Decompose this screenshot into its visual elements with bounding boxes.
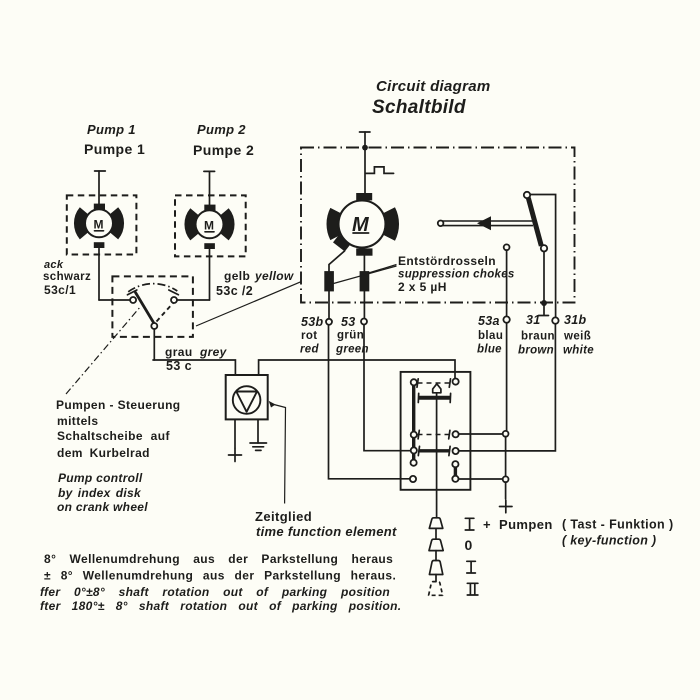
svg-text:schwarz: schwarz xyxy=(43,271,91,283)
wire pump1 top lead xyxy=(98,171,100,205)
wire 53 green down xyxy=(364,325,411,451)
junction dot on housing bottom xyxy=(541,300,547,306)
svg-text:red: red xyxy=(300,344,319,356)
pump motor M1 body circle xyxy=(85,209,113,237)
index disk switch S1 dashed housing xyxy=(112,276,192,337)
svg-text:Pumpe 1: Pumpe 1 xyxy=(84,141,145,157)
pump motor M2 right pole shoe xyxy=(224,212,228,236)
wire pump1 to disk contact xyxy=(99,299,130,301)
pushbutton direction symbol (pentagon) xyxy=(433,384,441,393)
terminal 53 circle xyxy=(361,319,367,325)
svg-text:Pump controll: Pump controll xyxy=(58,471,143,485)
wire pump2 bottom lead xyxy=(209,250,211,301)
switch left contact bar (thick) xyxy=(412,386,415,460)
contact mid-right row2 xyxy=(453,431,459,437)
wire timer plus leg xyxy=(234,419,236,448)
svg-text:fter 180°± 8° shaft rotation: fter 180°± 8° shaft rotation out of park… xyxy=(40,599,401,613)
wire grey 53c to timer xyxy=(153,360,235,375)
contact bottom-left (53b red) xyxy=(410,476,416,482)
svg-text:on crank wheel: on crank wheel xyxy=(57,500,148,514)
label position I xyxy=(467,561,476,573)
svg-text:8° Wellenumdrehung aus der: 8° Wellenumdrehung aus der Parkstellung … xyxy=(44,552,393,566)
index disk contact right (to pump2) xyxy=(171,297,177,303)
wire park switch top to 31b xyxy=(530,195,555,318)
svg-text:+: + xyxy=(483,517,491,532)
wire choke L2 to terminal 53 xyxy=(363,291,365,318)
svg-text:ffer 0°±8° shaft rotation out: ffer 0°±8° shaft rotation out of parking… xyxy=(40,585,390,599)
park switch bottom contact xyxy=(541,245,547,251)
pump motor M2 top brush xyxy=(204,205,215,211)
terminal 31b circle xyxy=(552,317,558,323)
svg-text:Schaltscheibe auf: Schaltscheibe auf xyxy=(57,429,170,443)
wire stem between bells 3-4 xyxy=(435,575,437,582)
timer triangle xyxy=(236,392,257,412)
svg-text:M: M xyxy=(204,219,214,233)
contact mid-left row2 xyxy=(411,432,417,438)
dashed row 1 with end ticks xyxy=(418,382,452,384)
index disk wiper dashed lever xyxy=(157,303,174,322)
wire disk common down xyxy=(153,329,155,360)
svg-text:weiß: weiß xyxy=(563,331,591,343)
detent position bell II (dashed) xyxy=(429,582,443,596)
wire 53a blue down xyxy=(506,323,508,431)
wire blue to plus xyxy=(505,482,507,499)
wire motor to left choke xyxy=(329,251,345,271)
leader line to choke L1 xyxy=(334,266,397,284)
wire 31b white down xyxy=(458,324,555,451)
contact mid-right row3 xyxy=(453,448,459,454)
svg-text:grün: grün xyxy=(337,330,364,342)
svg-text:53b: 53b xyxy=(301,315,324,329)
pump motor M1 right pole shoe xyxy=(113,211,117,235)
pump motor M1 top brush xyxy=(94,204,105,210)
plus symbol battery (blue line) xyxy=(500,500,513,513)
svg-text:Schaltbild: Schaltbild xyxy=(372,97,466,118)
terminal T-bar motor supply xyxy=(360,131,371,133)
wiper arm rod xyxy=(441,221,533,226)
contact circle 53a inside housing xyxy=(504,244,510,250)
wire 53a contact down xyxy=(506,250,508,316)
svg-text:braun: braun xyxy=(521,331,555,343)
wiper motor top brush xyxy=(356,193,372,200)
leader arrow to timer xyxy=(269,401,276,408)
wire pump2 top lead xyxy=(209,171,211,206)
park switch lever (thick) xyxy=(528,198,541,246)
index disk wiper solid lever xyxy=(136,293,154,323)
wiper motor lower-left brush xyxy=(333,234,351,251)
index disk common contact xyxy=(151,323,157,329)
svg-text:blau: blau xyxy=(478,330,503,342)
svg-text:dem Kurbelrad: dem Kurbelrad xyxy=(57,446,150,460)
index disk sector arc xyxy=(128,284,177,292)
annotation line disk to chokes xyxy=(196,282,301,326)
wiper motor right pole shoe xyxy=(388,211,391,238)
park switch top contact xyxy=(524,192,530,198)
suppression choke L1 xyxy=(324,271,334,291)
svg-text:53c/1: 53c/1 xyxy=(44,283,76,297)
wire row2 to blue junction xyxy=(459,433,503,435)
pump motor M2 bottom brush xyxy=(204,243,215,249)
junction dot on housing top xyxy=(362,145,368,151)
svg-text:rot: rot xyxy=(301,330,318,342)
time function element U1 box xyxy=(226,375,268,419)
wiper motor bottom brush xyxy=(356,248,372,255)
index disk arc end tick right xyxy=(169,290,179,295)
pump motor M2 dashed housing xyxy=(175,195,246,256)
svg-text:31b: 31b xyxy=(564,313,587,327)
timer circle xyxy=(233,386,261,414)
detent position bell 0 xyxy=(429,539,443,550)
wire timer ground leg xyxy=(257,419,259,443)
plus symbol timer supply xyxy=(229,449,242,462)
pulse waveform symbol xyxy=(366,167,394,174)
svg-text:0: 0 xyxy=(465,537,473,553)
pump motor M1 bottom brush xyxy=(94,242,105,248)
terminal T-bar pump1 xyxy=(95,170,106,172)
switch bridge bar with end ticks xyxy=(419,396,451,400)
svg-text:2 x 5 µH: 2 x 5 µH xyxy=(398,280,447,294)
pump motor M1 left pole shoe xyxy=(80,211,84,235)
svg-text:Pumpen: Pumpen xyxy=(499,517,553,532)
svg-text:( Tast - Funktion ): ( Tast - Funktion ) xyxy=(562,518,674,532)
leader line Pumpen-Steuerung (dash-dot) xyxy=(66,306,141,394)
column switch S2 housing xyxy=(401,372,471,490)
label position I-bar xyxy=(465,518,474,530)
svg-text:Entstördrosseln: Entstördrosseln xyxy=(398,254,496,268)
wiper arm arrowhead xyxy=(477,216,491,230)
pump motor M2 left pole shoe xyxy=(191,212,195,236)
svg-text:grey: grey xyxy=(199,345,228,359)
terminal 53a circle xyxy=(503,316,509,322)
wire motor top lead xyxy=(364,132,366,193)
wire blue mid segment xyxy=(505,437,507,477)
svg-text:53: 53 xyxy=(341,315,356,329)
svg-text:M: M xyxy=(94,218,104,232)
svg-text:Zeitglied: Zeitglied xyxy=(255,509,312,524)
wire park switch bottom to terminal 31 xyxy=(543,252,545,315)
svg-text:± 8° Wellenumdrehung aus der: ± 8° Wellenumdrehung aus der Parkstellun… xyxy=(44,569,396,583)
svg-text:53a: 53a xyxy=(478,314,500,328)
wiper motor body circle xyxy=(339,201,386,248)
svg-text:grau: grau xyxy=(165,345,193,359)
svg-text:Pump 2: Pump 2 xyxy=(197,122,246,137)
svg-text:mittels: mittels xyxy=(57,414,98,428)
svg-text:blue: blue xyxy=(477,344,502,356)
svg-text:Pumpe 2: Pumpe 2 xyxy=(193,142,254,158)
wire stem between bells 1-2 xyxy=(435,528,437,539)
terminal T-bar pump2 xyxy=(204,170,215,172)
svg-text:by index disk: by index disk xyxy=(58,486,142,500)
svg-text:53 c: 53 c xyxy=(166,359,192,373)
svg-text:31: 31 xyxy=(526,313,541,327)
svg-text:brown: brown xyxy=(518,345,554,357)
contact top-right (from 53c timer) xyxy=(453,379,459,385)
svg-text:Pump 1: Pump 1 xyxy=(87,122,136,137)
wiper motor unit dash-dot housing xyxy=(301,148,575,303)
terminal 31 T-bar xyxy=(539,315,549,317)
wire stem between bells 2-3 xyxy=(435,551,437,561)
detent position bell I xyxy=(429,561,442,575)
svg-text:Pumpen - Steuerung: Pumpen - Steuerung xyxy=(56,398,181,412)
svg-text:time function element: time function element xyxy=(256,524,397,539)
bottom-right contact pair bar xyxy=(454,466,457,477)
label position II xyxy=(467,583,478,595)
contact top-left xyxy=(411,379,417,385)
wire pump1 bottom lead xyxy=(98,249,100,301)
suppression choke L2 xyxy=(360,271,370,291)
svg-text:white: white xyxy=(563,345,594,357)
junction circle blue row1 xyxy=(503,431,509,437)
svg-text:suppression chokes: suppression chokes xyxy=(398,269,515,281)
svg-text:( key-function ): ( key-function ) xyxy=(562,534,656,548)
contact bottom-right lower xyxy=(452,476,458,482)
thick row 3 with end ticks xyxy=(420,449,450,452)
ground symbol xyxy=(250,443,267,450)
wire choke L1 to terminal 53b xyxy=(328,291,330,319)
contact mid-left row3 xyxy=(411,447,417,453)
terminal 53b circle xyxy=(326,319,332,325)
wiper motor left pole shoe xyxy=(334,211,337,237)
wire 53b red down xyxy=(329,325,411,479)
switch actuator stem xyxy=(436,393,438,518)
wire grey to pushbutton contact xyxy=(259,360,455,378)
leader line to choke L2 xyxy=(369,265,397,274)
contact bottom-right upper xyxy=(452,461,458,467)
wire pump2 to disk contact xyxy=(177,299,210,301)
wire motor to right choke xyxy=(363,256,365,271)
detent position bell I+ xyxy=(429,518,443,529)
svg-text:53c /2: 53c /2 xyxy=(216,284,253,298)
svg-text:Circuit diagram: Circuit diagram xyxy=(376,78,491,95)
wiper arm rod end circle xyxy=(438,221,444,227)
dashed row 2 with end ticks xyxy=(418,434,449,436)
svg-text:yellow: yellow xyxy=(254,269,294,283)
contact left row4 xyxy=(411,460,417,466)
index disk contact left (to pump1) xyxy=(130,297,136,303)
pump motor M2 body circle xyxy=(196,210,224,238)
svg-text:gelb: gelb xyxy=(224,269,250,283)
pump motor M1 dashed housing xyxy=(67,195,137,254)
index disk arc end tick left xyxy=(128,290,137,295)
junction circle blue row2 xyxy=(503,476,509,482)
wire bottom row to blue junction xyxy=(458,478,502,480)
svg-text:ack: ack xyxy=(44,259,64,271)
